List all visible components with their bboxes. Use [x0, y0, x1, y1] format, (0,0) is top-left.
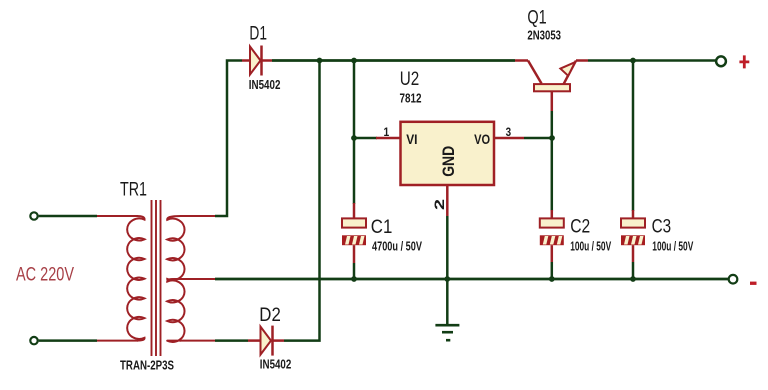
diode D2 — [248, 326, 284, 356]
wire C3 to rail — [632, 262, 635, 279]
terminal output plus — [716, 56, 726, 66]
wire top rail right — [588, 59, 716, 62]
junction top rail C3 — [630, 58, 636, 64]
TR1 primary winding — [127, 216, 144, 341]
ground — [435, 279, 459, 340]
junction top rail D2 — [317, 58, 323, 64]
junction rail C3 — [630, 276, 636, 282]
wire VO pin to junction — [524, 137, 553, 140]
wire VI junction to pin — [354, 137, 377, 140]
wire base drop — [551, 111, 554, 138]
svg-text:TR1: TR1 — [120, 179, 147, 200]
regulator U2 — [376, 122, 524, 216]
wire C3 drop — [632, 61, 635, 212]
wire U2 gnd pin to rail — [446, 216, 449, 279]
junction rail C1 — [351, 276, 357, 282]
capacitor C1 — [342, 203, 366, 263]
svg-text:IN5402: IN5402 — [249, 78, 281, 92]
junction VI — [351, 135, 357, 141]
TR1 secondary winding lower — [167, 279, 184, 342]
terminal input top — [30, 212, 37, 219]
diode D1 — [242, 46, 272, 76]
svg-text:4700u / 50V: 4700u / 50V — [372, 240, 422, 254]
svg-text:2: 2 — [432, 199, 447, 210]
svg-text:100u / 50V: 100u / 50V — [570, 240, 611, 254]
svg-text:Q1: Q1 — [527, 7, 546, 28]
label plus — [739, 55, 749, 68]
junction VO — [549, 135, 555, 141]
svg-text:C1: C1 — [371, 217, 393, 238]
svg-text:C2: C2 — [570, 217, 590, 238]
TR1 primary pin bottom — [97, 340, 138, 342]
svg-text:2N3053: 2N3053 — [527, 28, 561, 42]
wire C1 to rail — [353, 263, 356, 279]
svg-text:VO: VO — [474, 131, 490, 147]
TR1 primary pin top — [97, 215, 138, 217]
capacitor C3 — [621, 210, 645, 262]
TR1 secondary pin bottom — [180, 340, 215, 342]
wire C2 to rail — [551, 262, 554, 279]
wire input top — [39, 215, 97, 218]
svg-text:AC 220V: AC 220V — [16, 264, 75, 286]
label minus — [750, 282, 757, 285]
wire top rail left — [272, 59, 515, 62]
TR1 secondary pin middle — [175, 278, 215, 280]
wire VI drop — [353, 61, 356, 139]
svg-text:3: 3 — [506, 125, 512, 139]
wire C1 drop — [353, 138, 356, 204]
svg-text:C3: C3 — [652, 217, 672, 238]
wire secondary bottom tap to D2 — [215, 339, 248, 342]
transformer TR1 — [97, 200, 215, 356]
svg-text:1: 1 — [384, 125, 390, 139]
TR1 core — [151, 200, 153, 356]
terminal output minus — [729, 275, 738, 284]
junction rail gnd — [444, 276, 450, 282]
TR1 secondary pin top — [180, 215, 215, 217]
wire bottom rail — [215, 278, 729, 281]
svg-text:IN5402: IN5402 — [260, 358, 292, 372]
wire D2 cathode riser — [284, 61, 320, 341]
svg-text:D2: D2 — [259, 305, 281, 326]
svg-text:VI: VI — [406, 131, 417, 147]
svg-text:U2: U2 — [400, 69, 420, 90]
svg-text:GND: GND — [439, 146, 458, 177]
svg-text:TRAN-2P3S: TRAN-2P3S — [120, 358, 174, 372]
junction top rail VI — [351, 58, 357, 64]
capacitor C2 — [540, 210, 564, 262]
wire input bottom — [39, 339, 97, 342]
transistor Q1 — [515, 61, 588, 112]
svg-text:100u / 50V: 100u / 50V — [652, 240, 693, 254]
terminal input bottom — [30, 337, 37, 344]
TR1 secondary winding upper — [167, 216, 184, 280]
wire C2 drop — [551, 138, 554, 211]
svg-text:7812: 7812 — [400, 91, 422, 106]
junction rail C2 — [549, 276, 555, 282]
svg-text:D1: D1 — [249, 23, 267, 44]
wire secondary top tap to D1 — [215, 61, 242, 217]
